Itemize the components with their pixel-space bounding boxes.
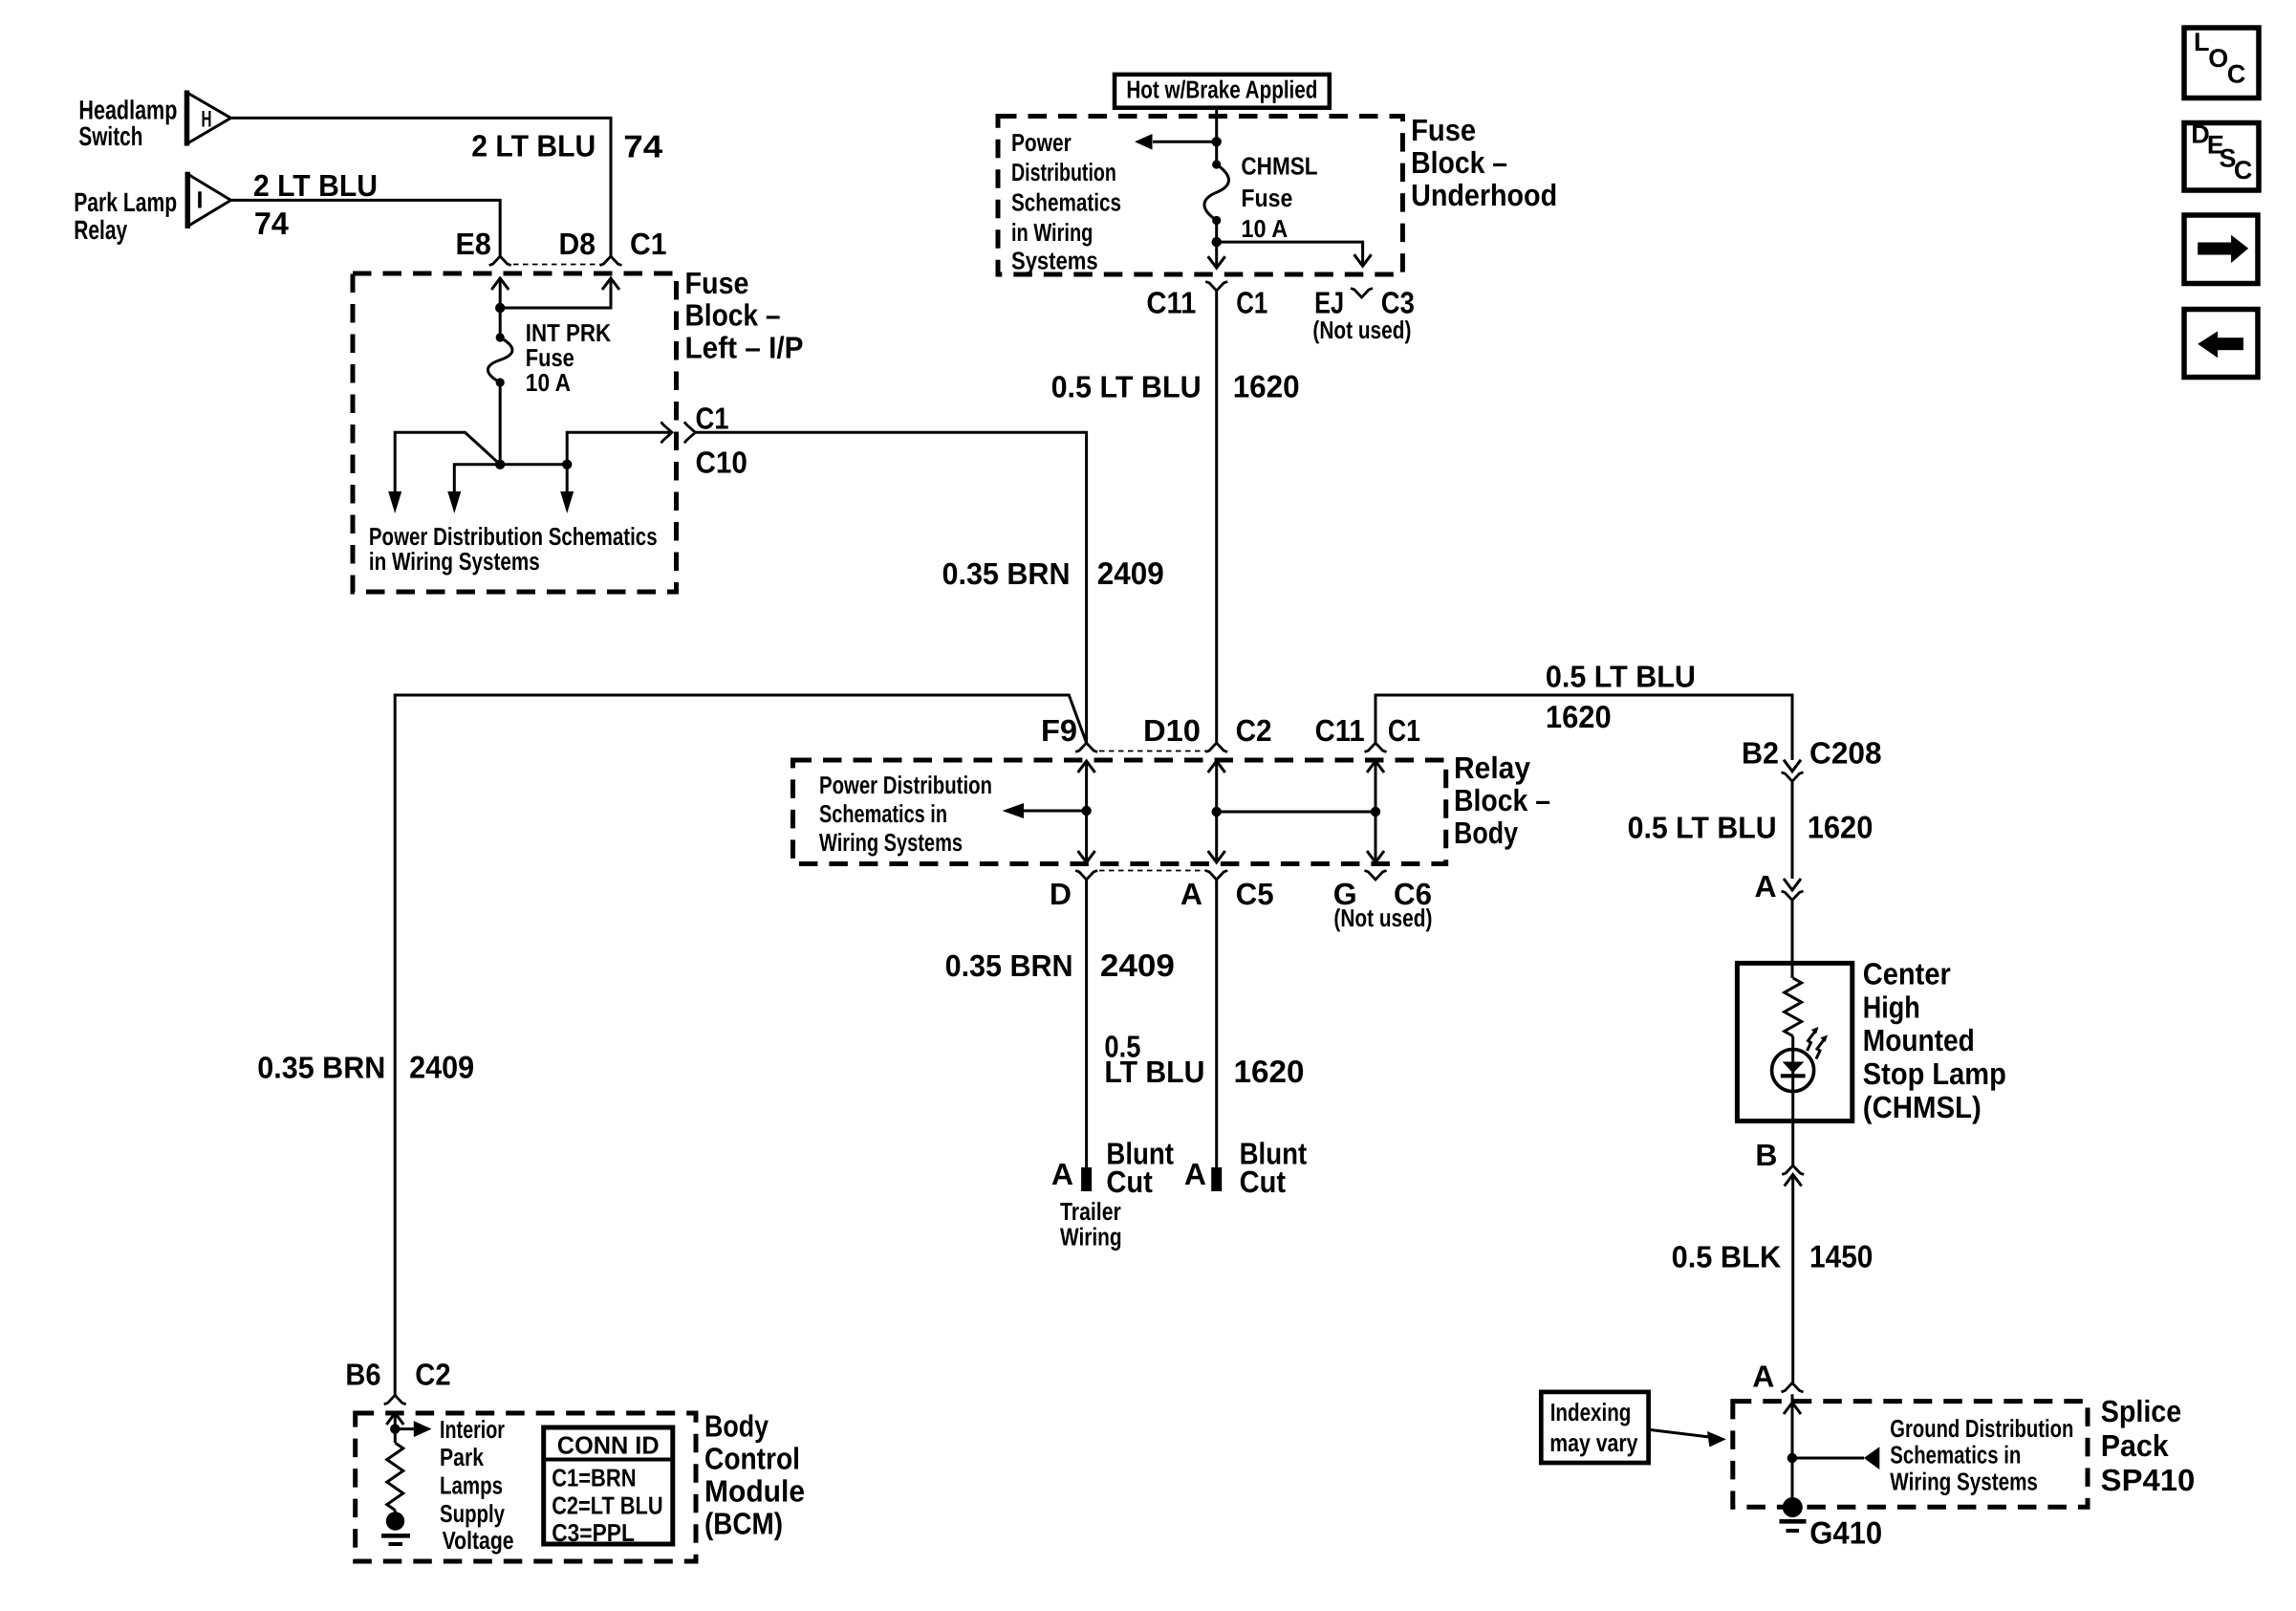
svg-text:in Wiring Systems: in Wiring Systems <box>369 547 540 576</box>
connector face dashed line D-A (bottom) <box>1099 870 1207 872</box>
svg-text:2409: 2409 <box>409 1050 474 1085</box>
relay internal line D10/C2-A/C5 with terminal arrows <box>1208 761 1225 773</box>
LED lamp symbol <box>1772 1050 1814 1092</box>
label Ground Distribution Schematics in Wiring Systems <box>1890 1414 2073 1496</box>
pin labels B2 C208 <box>1742 735 1882 770</box>
svg-text:Power: Power <box>1011 128 1072 157</box>
pin B6/C2 chevron <box>384 1395 406 1404</box>
svg-text:Mounted: Mounted <box>1863 1023 1975 1057</box>
wire label 2 LT BLU 74 <box>471 129 663 164</box>
pin D8 chevron <box>600 256 622 266</box>
inline connector B2/C208 <box>1784 760 1801 772</box>
svg-text:Stop Lamp: Stop Lamp <box>1863 1056 2006 1091</box>
svg-text:C1: C1 <box>696 402 729 436</box>
inline connector A (splice) <box>1782 1382 1804 1392</box>
label Interior Park Lamps Supply Voltage <box>440 1415 514 1555</box>
button next (right arrow) <box>2184 215 2258 284</box>
label Body Control Module (BCM) <box>704 1409 805 1541</box>
svg-text:D8: D8 <box>559 227 596 261</box>
svg-text:C: C <box>2234 156 2253 185</box>
svg-text:Underhood: Underhood <box>1411 178 1557 212</box>
svg-text:(Not used): (Not used) <box>1333 903 1432 932</box>
internal bus wire with junction nodes <box>1212 807 1222 816</box>
label Power Distribution Schematics in Wiring Systems (relay) <box>819 771 992 857</box>
pin EJ/C3 chevron (not used) <box>1351 289 1373 298</box>
svg-text:(CHMSL): (CHMSL) <box>1863 1090 1982 1124</box>
svg-text:Block –: Block – <box>685 297 781 332</box>
junction node in splice <box>1787 1453 1797 1463</box>
distribution node <box>495 460 505 469</box>
svg-text:C1: C1 <box>1388 713 1420 748</box>
svg-text:High: High <box>1863 990 1920 1024</box>
svg-text:Left – I/P: Left – I/P <box>685 330 804 364</box>
svg-text:Switch: Switch <box>78 121 142 151</box>
relay internal line F9-D with terminal arrows <box>1078 761 1095 773</box>
junction node hot feed <box>1212 137 1222 146</box>
svg-text:2409: 2409 <box>1097 555 1164 591</box>
svg-text:C: C <box>2227 60 2246 89</box>
wire into splice with terminal arrow <box>1791 1394 1794 1458</box>
label Park Lamp Relay <box>74 187 177 245</box>
svg-text:F9: F9 <box>1041 713 1077 748</box>
svg-text:C2: C2 <box>415 1358 450 1392</box>
pin A/C5 chevron <box>1205 871 1227 881</box>
ground G410 <box>1780 1497 1807 1531</box>
junction node <box>390 1424 400 1433</box>
resistor (lamp element feed) <box>1785 978 1802 1036</box>
wire 1620: C1 to relay block D10 <box>1215 291 1218 743</box>
wire 1620: A/C5 to blunt cut <box>1215 880 1218 1167</box>
junction node E8 feed <box>495 303 505 313</box>
svg-text:C1=BRN: C1=BRN <box>552 1463 636 1491</box>
svg-text:Lamps: Lamps <box>440 1471 503 1500</box>
svg-text:Fuse: Fuse <box>1241 184 1292 212</box>
svg-text:Wiring Systems: Wiring Systems <box>819 828 963 857</box>
svg-text:Cut: Cut <box>1106 1165 1153 1199</box>
svg-text:C2: C2 <box>1236 713 1272 748</box>
svg-text:B2: B2 <box>1742 735 1779 770</box>
power feed box Hot w/Brake Applied <box>1115 75 1330 108</box>
svg-text:CONN ID: CONN ID <box>557 1430 660 1459</box>
svg-text:0.35 BRN: 0.35 BRN <box>257 1051 385 1085</box>
junction node on F9-D line <box>1081 806 1091 816</box>
reference arrow to power distribution schematics <box>1023 810 1087 813</box>
svg-text:C2=LT BLU: C2=LT BLU <box>552 1491 662 1519</box>
wire label 0.5 LT BLU 1620 <box>1104 1030 1304 1089</box>
terminal arrow at E8 <box>491 278 509 290</box>
svg-text:74: 74 <box>254 206 290 241</box>
svg-text:B: B <box>1755 1138 1777 1172</box>
pin F9 chevron <box>1075 743 1097 752</box>
svg-text:G410: G410 <box>1809 1515 1882 1551</box>
svg-text:Interior: Interior <box>440 1415 505 1444</box>
relay internal line C11/C1-G/C6 with terminal arrows <box>1367 761 1384 773</box>
svg-text:Pack: Pack <box>2101 1428 2169 1463</box>
wire node to EJ output with arrow <box>1217 242 1363 254</box>
pin C11/C1 chevron (relay) <box>1365 743 1387 752</box>
svg-text:0.5 BLK: 0.5 BLK <box>1672 1240 1782 1274</box>
svg-text:Park Lamp: Park Lamp <box>74 187 177 217</box>
wire circuit 74: H to fuse block D8 <box>231 118 612 256</box>
svg-text:0.5 LT BLU: 0.5 LT BLU <box>1051 369 1202 403</box>
wire E8 node to D8 terminal <box>500 278 611 308</box>
svg-text:1620: 1620 <box>1233 368 1300 403</box>
pin labels F9 D10 C2 C11 C1 <box>1041 713 1420 748</box>
connector C1/C10 chevron pair <box>661 422 673 443</box>
fuse CHMSL 10 A <box>1212 160 1221 168</box>
svg-text:C11: C11 <box>1146 286 1196 320</box>
branch wire left with arrow (power distribution) <box>395 432 500 491</box>
wire label 0.5 BLK 1450 <box>1672 1239 1874 1274</box>
svg-text:A: A <box>1180 877 1202 911</box>
svg-text:2 LT BLU: 2 LT BLU <box>471 129 596 163</box>
svg-text:Body: Body <box>704 1409 769 1444</box>
label CHMSL Fuse 10 A <box>1241 151 1317 243</box>
label Center High Mounted Stop Lamp (CHMSL) <box>1863 957 2006 1124</box>
wire resistor to LED <box>1791 1036 1794 1050</box>
light emission arrows <box>1808 1027 1829 1059</box>
svg-text:D: D <box>1050 877 1072 911</box>
label Power Distribution Schematics in Wiring Systems <box>369 522 658 576</box>
svg-text:(BCM): (BCM) <box>704 1507 783 1541</box>
branch wire middle with arrow <box>454 465 500 491</box>
svg-text:Relay: Relay <box>1454 751 1530 785</box>
svg-text:Cut: Cut <box>1240 1165 1287 1199</box>
svg-text:C1: C1 <box>1236 286 1267 320</box>
CHMSL lamp box <box>1737 963 1852 1121</box>
connector face dashed line E8-D8 <box>513 264 600 266</box>
svg-text:0.5 LT BLU: 0.5 LT BLU <box>1628 810 1777 844</box>
svg-text:Voltage: Voltage <box>443 1526 514 1555</box>
relay block body dashed outline <box>793 760 1446 864</box>
svg-text:Fuse: Fuse <box>1411 113 1476 147</box>
fuse block underhood dashed outline <box>998 117 1402 275</box>
pin labels C11 C1 EJ C3 <box>1146 286 1414 320</box>
svg-text:in Wiring: in Wiring <box>1011 218 1093 247</box>
label Power Distribution Schematics in Wiring Systems (underhood) <box>1011 128 1121 275</box>
terminal arrow at D8 <box>602 278 619 290</box>
body control module dashed outline <box>356 1413 696 1561</box>
wire 2409: D to blunt cut <box>1085 880 1088 1167</box>
internal arrow to Interior Park Lamps Supply Voltage <box>395 1427 414 1430</box>
svg-text:C3=PPL: C3=PPL <box>552 1518 635 1547</box>
svg-text:2 LT BLU: 2 LT BLU <box>253 168 378 203</box>
svg-text:1450: 1450 <box>1809 1239 1873 1274</box>
svg-text:Supply: Supply <box>440 1499 505 1528</box>
svg-text:Hot w/Brake Applied: Hot w/Brake Applied <box>1126 75 1317 103</box>
svg-text:A: A <box>1184 1157 1206 1191</box>
svg-text:I: I <box>197 187 204 214</box>
svg-text:10 A: 10 A <box>526 368 571 397</box>
branch wire right to node <box>500 463 567 466</box>
wire circuit 74: I to fuse block E8 <box>231 200 501 256</box>
label Fuse Block - Left - I/P <box>685 266 804 365</box>
svg-text:74: 74 <box>623 129 663 164</box>
svg-text:C10: C10 <box>696 446 747 480</box>
pin D chevron <box>1075 871 1097 881</box>
svg-text:Fuse: Fuse <box>685 266 749 300</box>
pin C11/C1 chevron <box>1205 282 1227 292</box>
svg-text:Ground Distribution: Ground Distribution <box>1890 1414 2073 1443</box>
pin labels D A C5 G C6 <box>1050 877 1432 911</box>
svg-text:Systems: Systems <box>1011 247 1098 275</box>
connector triangle I (Park Lamp Relay output) <box>187 172 230 229</box>
wire 2409: C10 to relay block F9 <box>695 432 1086 743</box>
output node <box>1212 237 1222 247</box>
svg-text:CHMSL: CHMSL <box>1241 151 1317 180</box>
wire label 0.5 LT BLU 1620 <box>1546 660 1696 735</box>
svg-text:Module: Module <box>704 1474 805 1509</box>
wire node to C10 connector <box>567 432 671 465</box>
connector triangle H (Headlamp Switch output) <box>187 91 231 146</box>
svg-text:2409: 2409 <box>1100 947 1175 983</box>
svg-text:1620: 1620 <box>1234 1054 1305 1089</box>
svg-text:0.35 BRN: 0.35 BRN <box>942 556 1071 591</box>
svg-text:A: A <box>1754 869 1776 903</box>
label Blunt Cut <box>1106 1136 1174 1198</box>
svg-text:Power Distribution: Power Distribution <box>819 771 992 799</box>
blunt cut terminal 2 <box>1211 1167 1222 1191</box>
svg-text:may vary: may vary <box>1549 1428 1638 1457</box>
button LOC <box>2184 28 2259 98</box>
internal ground node <box>394 1511 397 1522</box>
wire into CHMSL lamp <box>1791 901 1794 978</box>
svg-text:D10: D10 <box>1143 713 1201 748</box>
svg-text:Block –: Block – <box>1411 145 1507 180</box>
fuse INT PRK 10 A <box>496 333 505 341</box>
svg-text:O: O <box>2208 44 2228 73</box>
svg-text:Control: Control <box>704 1442 800 1476</box>
svg-text:Splice: Splice <box>2101 1394 2182 1428</box>
label INT PRK Fuse 10 A <box>526 318 611 397</box>
wire hot feed into fuse block <box>1215 108 1218 142</box>
label Splice Pack SP410 <box>2101 1394 2196 1497</box>
wire node to CHMSL fuse <box>1215 142 1218 164</box>
svg-text:H: H <box>202 107 212 133</box>
svg-text:Block –: Block – <box>1454 783 1550 817</box>
pin D10/C2 chevron <box>1205 743 1227 752</box>
wire LED to box bottom <box>1791 1090 1794 1165</box>
note box Indexing may vary <box>1541 1392 1648 1463</box>
button previous (left arrow) <box>2184 310 2258 378</box>
internal ground symbol <box>381 1535 410 1544</box>
label Headlamp Switch <box>78 96 177 151</box>
reference arrow to power distribution <box>1153 141 1217 143</box>
resistor (park lamp load) <box>394 1429 397 1443</box>
svg-text:A: A <box>1051 1157 1073 1191</box>
note arrow to splice pack <box>1649 1429 1709 1437</box>
CONN ID table <box>544 1427 673 1547</box>
svg-text:Indexing: Indexing <box>1550 1398 1632 1426</box>
svg-text:C1: C1 <box>630 227 667 261</box>
svg-text:Center: Center <box>1863 957 1951 991</box>
pin labels B6 C2 <box>345 1358 450 1392</box>
svg-text:1620: 1620 <box>1808 809 1874 844</box>
svg-text:Schematics in: Schematics in <box>1890 1440 2021 1469</box>
wire E8 node to fuse <box>499 308 502 337</box>
wire 2409: BCM B6 to F9 junction <box>395 695 1086 1395</box>
wire label 2 LT BLU 74 <box>253 168 378 241</box>
svg-text:C208: C208 <box>1809 735 1882 770</box>
svg-text:Relay: Relay <box>74 215 127 245</box>
label Relay Block - Body <box>1454 751 1550 850</box>
wire fuse to output node <box>1215 221 1218 243</box>
connector face dashed line F9-D10 <box>1099 751 1207 752</box>
button DESC <box>2184 120 2259 190</box>
svg-text:B6: B6 <box>345 1358 380 1392</box>
fuse block left I/P dashed outline <box>353 273 677 592</box>
svg-text:A: A <box>1752 1359 1774 1393</box>
svg-text:C5: C5 <box>1236 877 1274 911</box>
reference stub to ground distribution <box>1792 1457 1864 1460</box>
inline connector B <box>1782 1165 1804 1175</box>
wire 1620: C208 to CHMSL A <box>1791 781 1794 879</box>
svg-text:Body: Body <box>1454 816 1518 850</box>
wire to ground <box>1791 1458 1794 1508</box>
svg-text:10 A: 10 A <box>1241 214 1288 243</box>
svg-text:1620: 1620 <box>1546 699 1612 734</box>
splice pack dashed outline <box>1733 1402 2088 1508</box>
svg-text:LT BLU: LT BLU <box>1104 1055 1204 1089</box>
svg-text:SP410: SP410 <box>2101 1463 2196 1497</box>
svg-text:Wiring Systems: Wiring Systems <box>1890 1468 2038 1496</box>
wire into BCM with terminal arrow <box>394 1413 397 1429</box>
wire node to C11 output with arrow <box>1215 242 1218 256</box>
svg-text:Distribution: Distribution <box>1011 158 1116 186</box>
wire label 0.35 BRN 2409 (upper) <box>942 555 1164 591</box>
svg-text:E8: E8 <box>456 227 491 261</box>
svg-text:Park: Park <box>440 1443 484 1471</box>
wire label 0.35 BRN 2409 <box>945 947 1175 983</box>
wire label 0.35 BRN 2409 (left) <box>257 1050 474 1085</box>
svg-text:0.5 LT BLU: 0.5 LT BLU <box>1546 660 1696 694</box>
blunt cut terminal (trailer wiring) <box>1081 1167 1092 1191</box>
label Blunt Cut <box>1240 1136 1308 1198</box>
svg-text:0.35 BRN: 0.35 BRN <box>945 948 1073 983</box>
inline connector A (CHMSL) <box>1784 879 1801 890</box>
wire label 0.5 LT BLU 1620 <box>1628 809 1874 844</box>
wire fuse to distribution node <box>499 382 502 465</box>
svg-text:L: L <box>2194 28 2210 56</box>
branch arrow down <box>566 465 569 491</box>
svg-text:C11: C11 <box>1315 713 1365 748</box>
pin G/C6 chevron (not used) <box>1365 871 1387 881</box>
label Fuse Block - Underhood <box>1411 113 1557 212</box>
pin E8 chevron <box>489 256 511 266</box>
svg-text:Wiring: Wiring <box>1060 1222 1122 1251</box>
svg-text:Schematics: Schematics <box>1011 188 1121 217</box>
wire 1450: B to splice A <box>1791 1175 1794 1383</box>
label Trailer Wiring <box>1060 1197 1122 1251</box>
svg-text:Schematics in: Schematics in <box>819 799 947 828</box>
svg-text:(Not used): (Not used) <box>1312 316 1411 344</box>
wire 1620: relay C11/C1 to B2 <box>1375 695 1792 760</box>
junction node right branch <box>562 460 572 469</box>
wire label 0.5 LT BLU 1620 <box>1051 368 1300 403</box>
